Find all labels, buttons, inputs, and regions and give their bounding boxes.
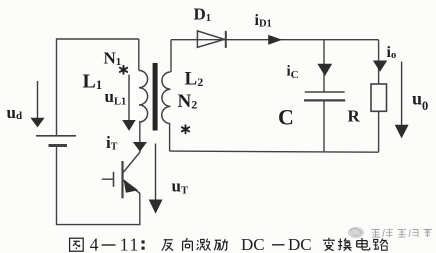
battery E short thick plate: [49, 144, 68, 147]
current arrow i_D1 head: [268, 35, 282, 45]
wire: capacitor branch upper: [323, 40, 325, 92]
svg-text:iT: iT: [106, 133, 118, 153]
wire: secondary top horizontal: [171, 39, 379, 41]
annotation arrow u_d head: [30, 118, 44, 128]
svg-text:DC: DC: [288, 235, 312, 253]
annotation arrow u_L1 head: [122, 120, 135, 131]
caption: 向: [183, 238, 193, 251]
wire: secondary winding top drop: [170, 40, 172, 72]
caption: 图: [70, 238, 84, 251]
caption: 激: [197, 239, 211, 251]
inductor L2 secondary winding: [162, 72, 171, 124]
capacitor C bottom plate: [304, 99, 345, 101]
transistor V gate lead: [102, 178, 113, 180]
transistor V gate bar: [113, 172, 115, 187]
annotation arrow u_T head: [149, 200, 163, 214]
wire: capacitor branch lower: [323, 102, 325, 153]
svg-text:iC: iC: [287, 63, 299, 81]
caption: 励: [214, 239, 228, 250]
svg-text:uL1: uL1: [105, 87, 127, 108]
svg-text:u0: u0: [412, 88, 428, 113]
polarity dot primary (asterisk): [120, 66, 127, 74]
caption: dash 1: [102, 244, 116, 246]
svg-text:R: R: [348, 106, 361, 125]
svg-text:L2: L2: [185, 68, 204, 89]
svg-text:uT: uT: [172, 176, 188, 196]
watermark logo blob: [348, 227, 364, 238]
caption: dash 2: [272, 244, 285, 246]
caption: 路: [374, 239, 388, 251]
annotation arrow u_d stem: [37, 81, 39, 118]
caption: 电: [357, 238, 370, 250]
wire: emitter drop: [139, 193, 141, 225]
svg-text:DC: DC: [241, 235, 265, 253]
diode D1 cathode bar: [225, 31, 227, 48]
wire: resistor lower lead: [378, 111, 380, 152]
wire: collector drop: [139, 122, 141, 153]
capacitor C top plate: [305, 91, 345, 93]
wire: primary winding top drop: [138, 39, 140, 71]
svg-text:N1: N1: [104, 49, 122, 69]
transistor V channel bar: [121, 161, 123, 198]
transistor V emitter diagonal: [123, 181, 140, 194]
svg-text:iD1: iD1: [255, 12, 272, 30]
wire: right branch corner down to resistor: [378, 40, 380, 84]
svg-text:N2: N2: [178, 91, 198, 112]
resistor R box: [371, 84, 387, 111]
svg-text:ud: ud: [7, 103, 23, 122]
wire: left rail upper: [56, 38, 58, 135]
svg-text:D1: D1: [194, 5, 212, 25]
caption: fullwidth colon: [142, 240, 145, 249]
caption: 反: [162, 240, 173, 251]
battery E long plate: [36, 135, 76, 137]
annotation arrow u_L1 stem: [128, 75, 130, 121]
current arrow i_C head: [317, 64, 332, 76]
svg-text:11: 11: [120, 234, 140, 253]
svg-text:L1: L1: [83, 70, 103, 92]
annotation arrow u_0 head: [395, 125, 409, 139]
wire: left rail lower: [56, 147, 58, 225]
diode D1 triangle: [197, 31, 224, 48]
caption: 换: [338, 238, 351, 250]
current arrow i_T head: [133, 142, 147, 152]
wire: primary top horizontal: [57, 38, 139, 40]
annotation arrow u_T stem: [155, 144, 157, 201]
svg-text:C: C: [278, 105, 294, 130]
transistor V collector diagonal: [123, 152, 140, 172]
polarity dot secondary (asterisk): [182, 125, 189, 133]
caption: 变: [323, 238, 335, 251]
svg-text:io: io: [387, 44, 397, 61]
svg-text:4: 4: [90, 234, 99, 253]
wire: bottom secondary horizontal: [170, 151, 379, 152]
transistor V emitter arrowhead: [124, 179, 139, 193]
watermark text 硬件笔记本: [372, 229, 433, 238]
inductor L1 primary winding: [139, 71, 148, 123]
annotation arrow u_0 stem: [401, 62, 403, 126]
wire: secondary winding bottom drop: [169, 124, 171, 152]
current arrow i_o head: [373, 61, 387, 72]
transformer core bar: [153, 63, 158, 131]
wire: bottom primary horizontal: [57, 224, 141, 226]
